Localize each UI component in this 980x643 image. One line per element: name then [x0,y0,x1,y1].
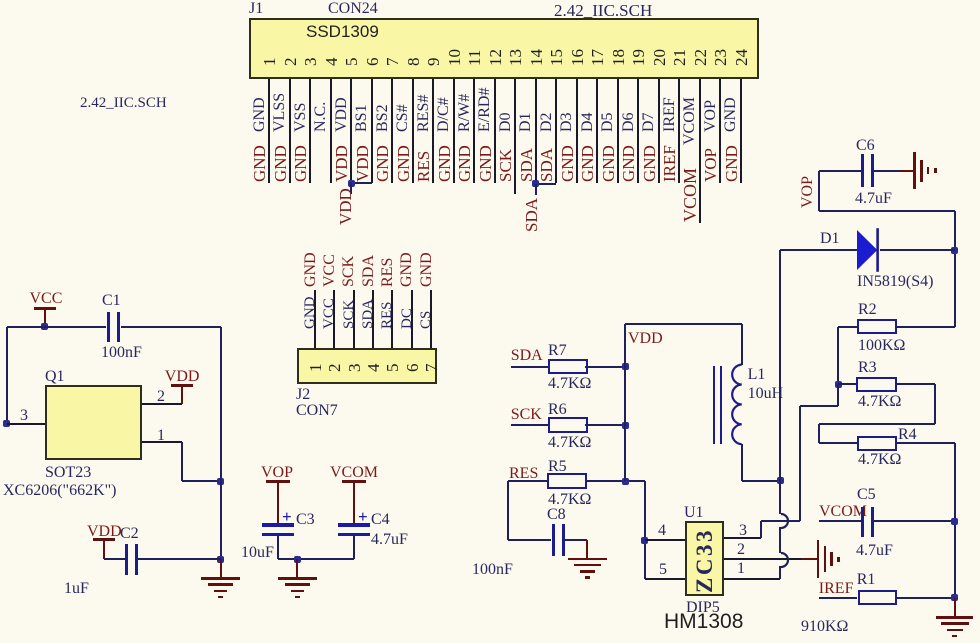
junction D1 cathode [951,247,958,254]
Q1 pin 1 wire [142,441,182,443]
ground below C3 [296,559,298,578]
wire R3 return row [819,423,935,425]
J2 pin 1 wire [314,290,316,348]
J2 pin 2 wire [333,290,335,348]
J1 pin 17 wire [596,79,598,183]
wire C3-C4 bottom row [278,558,355,560]
J1 pin 4 number [323,57,340,66]
net label SDA below J1 [523,197,540,231]
J2 pin 4 wire [372,290,374,348]
label R5 [548,459,567,475]
J1 pin 18 wire [617,79,619,183]
J1 pin 6 wire [371,79,373,183]
J1 pin 22 wire [699,79,701,223]
J1 pin 21 name IREF [662,97,678,132]
wire D1 anode [780,249,858,251]
wire R5 to U1 branch [586,480,645,482]
J1 pin 4 wire [330,79,332,183]
wire R3 left [838,383,856,385]
J1 pin 16 number [569,49,586,66]
J1 pin 13 net label SCK [497,149,514,182]
J1 pin 16 net label GND [559,145,576,182]
wire C6 right [874,170,899,172]
resistor R3 [856,377,897,392]
wire C3 to bottom [277,536,279,560]
label C5 [857,487,876,503]
U1 pin 5 number [659,562,667,578]
J1 pin 12 net label GND [477,145,494,182]
J2 pin 4 number [365,363,382,372]
value 4.7uF (C4) [371,532,408,548]
J2 pin 7 wire [430,290,432,348]
J2 pin 1 net label GND [303,252,319,287]
J1 pin 15 name D2 [539,112,555,132]
value 1uF (C2) [64,581,89,597]
junction at Q1 pin 3 corner [3,420,10,427]
J2 pin 3 net label SCK [341,256,357,287]
J1 pin 22 number [692,49,709,66]
net label SCK [511,407,542,423]
J1 pin 17 name D4 [580,112,596,132]
wire IREF to R1 [819,597,858,599]
J1 pin 19 name D6 [621,112,637,132]
wire joining J1 pins 14-15 (SDA) [536,183,557,185]
wire joining J1 pins 5-6 (VDD) [351,182,372,184]
power symbol VDD at C2 [87,524,122,540]
ground below C2 junction [220,559,222,578]
label R3 [858,360,877,376]
wire L1 top lead [741,324,743,365]
resistor R4 [857,436,897,451]
wire hop over pin2 wire [773,551,791,569]
value 910Kohm (R1) [801,619,848,635]
VDD vertical wire [624,324,626,481]
J2 pin 2 name VCC [322,298,337,329]
label SOT23 [45,465,91,481]
J1 pin 10 net label GND [436,145,453,182]
J1 pin 10 name D/C# [436,97,452,132]
label L1 [748,367,766,383]
resistor R7 [548,359,588,375]
J1 pin 23 name VOP [703,99,719,131]
J2 pin 6 wire [411,290,413,348]
J1 pin 12 name E/RD# [477,87,493,131]
junction R5-VDD [622,478,629,485]
value 4.7Kohm (R6) [548,435,591,451]
Q1 pin 2 wire [142,403,182,405]
J1 pin 1 name GND [252,97,268,132]
J1 pin 3 name VSS [293,102,309,131]
power symbol VDD at Q1 pin 2 [165,369,200,385]
label HM1308 [664,611,743,632]
wire R3 return down [818,424,820,443]
J1 pin 18 name D5 [600,112,616,132]
resistor R6 [548,417,588,433]
wire RES to R5 [508,480,547,482]
ground at U1 pin 2 (rotated) [801,558,818,560]
label R1 [857,572,876,588]
SDA stub below J1 pin 14 [535,184,537,196]
J1 pin 6 net label VDD [354,145,371,182]
capacitor C5 [861,507,864,537]
J2 pin 3 wire [353,290,355,348]
J1 pin 14 net label SDA [518,148,535,182]
J1 pin 23 net label VOP [702,148,719,182]
wire SDA to R7 [511,366,548,368]
wire R1 right [897,597,955,599]
J1 pin 3 net label GND [292,145,309,182]
J1 pin 16 wire [576,79,578,183]
net label SDA [511,348,543,364]
U1 pin 3 wire up [760,521,762,538]
wire L1 bottom lead [741,444,743,481]
wire VCOM to C5 [819,520,862,522]
label DIP5 [686,600,720,616]
J1 pin 19 net label GND [620,145,637,182]
value 10uH (L1) [748,386,784,402]
J2 pin 2 number [326,363,343,372]
label C3 [296,512,315,528]
J1 pin 24 net label GND [723,145,740,182]
label J1 [249,1,263,17]
J1 pin 7 net label GND [374,145,391,182]
wire R4 right [896,442,954,444]
wire R6 to VDD line [585,424,625,426]
power symbol VOP at C3 [261,465,293,481]
wire left vertical VCC to pin3 [6,327,8,424]
J2 pin 2 net label VCC [322,254,338,287]
connector J2 CON7 body [297,348,437,384]
J1 pin 7 wire [391,79,393,183]
label SSD1309 [306,23,379,40]
J1 pin 22 net label VCOM [681,167,699,221]
capacitor C1 [107,312,110,342]
J1 pin 8 number [405,57,422,66]
label CON7 [296,403,338,419]
inductor L1 core bars [713,366,715,444]
J1 pin 14 name D1 [518,112,534,132]
J1 pin 10 number [446,49,463,66]
value 10uF (C3) [241,545,274,561]
plus sign C4 [358,508,368,525]
net label VDD below J1 [337,188,354,225]
label R6 [548,402,567,418]
J2 pin 6 net label GND [399,252,415,287]
J1 pin 6 number [364,57,381,66]
J1 pin 9 number [425,57,442,66]
J1 pin 1 number [261,57,278,66]
label R2 [858,302,877,318]
label CON24 [328,1,378,17]
J1 pin 11 name R/W# [457,93,473,131]
right vertical wire C1 to ground [220,327,222,560]
wire VCC row to C1 [7,326,106,328]
J1 pin 3 number [302,57,319,66]
wire R3 right down [934,384,936,424]
value 4.7Kohm (R5) [548,492,591,508]
J1 pin 13 name D0 [498,112,514,132]
J2 pin 5 net label RES [380,258,396,287]
junction C2 row [217,556,224,563]
J1 pin 8 net label GND [395,145,412,182]
ground at C6 (rotated) [899,170,914,172]
J1 pin 6 name BS1 [354,104,370,132]
junction at J1 pin 14 [532,180,539,187]
capacitor C2 [125,544,128,575]
J2 pin 4 name SDA [361,299,376,329]
sheet name 2.42_IIC.SCH (top) [554,2,652,19]
J2 pin 3 name SCK [342,300,357,329]
wire D1 cathode [880,249,955,251]
wire C5 right [874,520,955,522]
J1 pin 18 number [610,49,627,66]
J1 pin 24 wire [740,79,742,183]
U1 pin 3 wire [724,537,761,539]
capacitor C6 [861,154,864,187]
wire VOP row to right [819,210,955,212]
Q1 pin 2 number [157,389,165,405]
U1 pin 4 number [658,523,666,539]
sheet name 2.42_IIC.SCH (left) [80,96,167,111]
J1 pin 1 wire [268,79,270,183]
junction R3 left [835,381,842,388]
net label VCOM [819,504,867,520]
label ZC33 inside U1 [693,528,716,593]
capacitor C3 (polarized) [262,523,294,526]
wire C2 to junction [138,558,221,560]
wire D1 vertical (lower) to pin1 [779,566,781,579]
wire right vertical R4 to ground [954,443,956,598]
wire Q1 pin1 down [181,442,183,481]
wire R2 left vertical [837,327,839,384]
junction C3 ground [294,556,301,563]
net label RES [509,466,538,482]
wire right vertical VOP to R2 [954,211,956,327]
wire C8 to ground [565,539,587,541]
J2 pin 7 name CS [419,311,434,329]
J1 pin 11 net label GND [456,145,473,182]
label C6 [856,138,875,154]
wire R2 left [838,326,857,328]
J1 pin 5 number [343,57,360,66]
value 4.7Kohm (R4) [858,452,901,468]
label C8 [547,507,566,523]
label C2 [120,526,139,542]
J1 pin 20 name D7 [641,112,657,132]
J1 pin 12 wire [494,79,496,183]
Q1 pin 3 number [20,408,28,424]
J1 pin 1 net label GND [251,145,268,182]
value 100nF (C8) [472,562,513,578]
J1 pin 9 name RES# [416,94,432,131]
junction VCC-C1 wire [41,323,48,330]
wire RES down [507,481,509,540]
wire L1 to D1 vertical [742,480,781,482]
J1 pin 14 wire [535,79,537,183]
J1 pin 11 wire [473,79,475,183]
J1 pin 17 number [589,49,606,66]
wire hop over pin3 wire [773,512,791,530]
power symbol VCC [30,291,63,307]
J1 pin 8 wire [412,79,414,183]
IC U1 body ZC33 [685,521,724,596]
wire R2 right [896,326,954,328]
junction R7-VDD [622,363,629,370]
wire C1 to right vertical [121,326,221,328]
wire D1 vertical (middle) [779,527,781,553]
VDD stub below J1 pin 5 [350,183,352,194]
wire R3 right [896,383,935,385]
resistor R2 [857,319,897,334]
J1 pin 14 number [528,49,545,66]
J1 pin 9 wire [432,79,434,183]
J1 pin 23 number [712,49,729,66]
net label VOP (rotated) [800,176,816,208]
value 100Kohm (R2) [858,338,905,354]
resistor R1 [858,590,898,606]
J1 pin 2 number [282,57,299,66]
wire C4 to bottom [353,536,355,560]
J1 pin 15 net label SDA [538,148,555,182]
J1 pin 5 wire [350,79,352,183]
wire VDD top row [625,323,741,325]
Q1 pin 1 number [157,428,165,444]
J1 pin 17 net label GND [579,145,596,182]
label XC6206("662K") [3,483,117,499]
J1 pin 15 wire [555,79,557,183]
value 100nF (C1) [101,345,142,361]
J2 pin 6 name DC [400,308,415,329]
junction R6-VDD [622,422,629,429]
J1 pin 7 name BS2 [375,104,391,132]
J1 pin 23 wire [719,79,721,183]
wire VDD stub to C2 [104,558,126,560]
J1 pin 24 name GND [723,97,739,132]
J1 pin 21 number [671,49,688,66]
J1 pin 20 wire [658,79,660,183]
U1 pin 4 wire [645,539,685,541]
junction at J1 pin 5 [348,180,355,187]
J1 pin 15 number [548,49,565,66]
capacitor C4 (polarized) [338,523,370,526]
wire R3 branch left [800,405,838,407]
J2 pin 4 net label SDA [361,255,377,287]
J1 pin 7 number [384,57,401,66]
label R7 [548,343,567,359]
J1 pin 22 name VCOM [682,97,698,145]
J1 pin 8 name CS# [395,104,411,132]
label U1 [684,505,704,521]
J1 pin 12 number [487,49,504,66]
wire SCK to R6 [511,424,548,426]
J1 pin 11 number [466,49,483,65]
J2 pin 5 number [384,363,401,372]
J1 pin 21 net label IREF [661,145,678,182]
J1 pin 16 name D3 [559,112,575,132]
J1 pin 2 net label GND [272,145,289,182]
label D1 [820,231,840,247]
U1 pin 3 number [739,523,747,539]
power symbol VCOM at C4 [330,465,378,481]
value 4.7Kohm (R3) [858,394,901,410]
J2 pin 7 number [423,363,440,372]
label R4 [898,427,917,443]
value 4.7Kohm (R7) [548,376,591,392]
inductor L1 coil [725,360,749,452]
capacitor C8 [552,524,555,556]
value 4.7uF (C5) [856,543,893,559]
J1 pin 3 wire [309,79,311,183]
J1 pin 5 name VDD [334,97,350,132]
U1 pin 2 number [737,542,745,558]
J2 pin 1 number [307,363,324,372]
junction pin1 wire at right vertical [217,478,224,485]
label J2 [296,387,310,403]
J1 pin 2 wire [289,79,291,183]
J1 pin 20 number [651,49,668,66]
J2 pin 5 name RES [380,301,395,329]
resistor R5 [547,473,587,489]
U1 pin 1 wire [724,578,781,580]
J2 pin 6 number [404,363,421,372]
J1 pin 4 name N.C. [313,101,329,131]
U1 pin 1 number [737,561,745,577]
wire R3 branch vertical to VCOM row [799,406,801,521]
J1 pin 18 net label GND [600,145,617,182]
wire R5 branch down to U1 [644,481,646,579]
net label IREF [819,581,854,597]
junction R1 right [951,594,958,601]
junction U1 pin 4 [641,537,648,544]
J2 pin 7 net label GND [419,252,435,287]
wire R7 to VDD line [585,366,625,368]
J1 pin 10 wire [453,79,455,183]
J1 pin 19 number [630,49,647,66]
connector J1 CON24 body SSD1309 [249,18,759,79]
wire R3 branch down [837,384,839,406]
net label VDD [628,331,663,347]
J1 pin 2 name VLSS [272,92,288,131]
J1 pin 24 number [733,49,750,66]
junction C5 right [951,518,958,525]
J1 pin 13 wire [514,79,516,194]
wire VOP vertical [818,171,820,211]
J1 pin 9 net label RES [415,151,432,182]
J2 pin 1 name GND [303,297,318,330]
diode D1 triangle and cathode bar [855,227,883,273]
J1 pin 13 number [507,49,524,66]
J1 pin 5 net label VDD [333,145,350,182]
U1 pin 3 wire right [761,520,801,522]
transistor Q1 body SOT23 [45,385,142,460]
J1 pin 20 net label GND [641,145,658,182]
J1 pin 21 wire [678,79,680,183]
U1 pin 5 wire [645,578,685,580]
label C1 [102,293,121,309]
J1 pin 19 wire [637,79,639,183]
wire to C8 [508,539,551,541]
J2 pin 5 wire [391,290,393,348]
wire to R4 left [819,442,857,444]
plus sign C3 [282,508,292,525]
value 4.7uF (C6) [855,191,892,207]
value IN5819(S4) (D1) [857,274,933,290]
wire Q1 pin1 to right vertical [182,480,221,482]
Q1 pin 3 wire [7,423,45,425]
wire C6 left [819,170,862,172]
wire D1 anode vertical (upper) [779,250,781,514]
label C4 [371,512,390,528]
